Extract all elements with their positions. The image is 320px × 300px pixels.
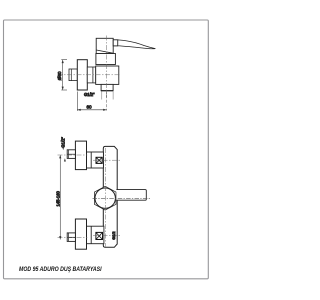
hex boss (front view) [94,186,116,210]
svg-text:G1/2”: G1/2” [84,92,95,97]
cartridge circle (front view) [95,188,115,208]
body block (side view) [96,66,119,84]
svg-text:60: 60 [87,104,93,109]
dimension 145-160 [59,155,61,240]
body slab (front view) [103,146,117,247]
svg-text:145-160: 145-160 [55,190,60,206]
outlet block (side view) [101,84,113,90]
escutcheon Ø60 (side view) [77,60,87,90]
upper union (front view) [87,152,104,168]
body vertical centerline (front view) [104,148,106,247]
lower wall axis centerline [58,237,88,239]
dimension 60 (bottom of side view) [77,92,106,111]
lever hub (side view) [113,40,118,46]
wall stub (side view) [69,69,77,81]
svg-text:Ø60: Ø60 [57,71,62,80]
cartridge cap (side view) [96,38,113,53]
leader arrows G1/2 [62,147,64,150]
outlet dashed centerline [106,91,108,111]
svg-text:G1/2”: G1/2” [60,137,65,148]
lower union (front view) [87,226,104,244]
lower body inlet centerline [93,235,121,237]
vertical centerline (cartridge axis, side view) [105,36,107,98]
upper escutcheon (front view) [75,141,86,170]
caption MOD 95 ADURO DUS BATARYASI [19,266,102,273]
lower wall stub (front view) [67,233,75,242]
lower escutcheon (front view) [75,219,86,249]
horizontal centerline (side view axis) [58,74,122,76]
circle crosshair horizontal [93,197,151,199]
lever underside diagonal [96,50,113,53]
upper wall stub (front view) [67,150,75,159]
svg-text:G1/2: G1/2 [112,232,116,240]
union pipe (side view) [87,67,95,83]
upper check valve symbol [96,157,102,163]
border frame [4,20,209,279]
upper wall axis centerline [58,154,88,156]
collar under cap (side view) [96,54,116,65]
lower check valve symbol [96,232,103,239]
handle bar (front view) [116,190,146,201]
lever blade (side view) [118,40,156,49]
upper body inlet centerline [93,159,121,161]
outlet edge extension lines [101,92,103,100]
dimension Ø60 (left of side view) [61,60,67,90]
